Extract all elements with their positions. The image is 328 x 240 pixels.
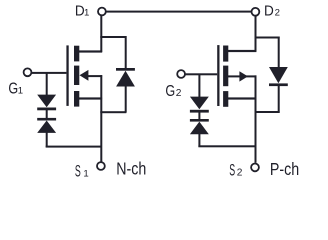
transistor Q2 channel source segment — [223, 91, 228, 107]
wire zener link Q2 — [198, 112, 200, 119]
body diode of Q2 triangle — [269, 67, 288, 83]
transistor Q2 drain lead — [228, 50, 256, 52]
terminal D2 — [252, 8, 260, 16]
svg-text:1: 1 — [18, 86, 23, 97]
wire source vertical Q2 — [255, 75, 257, 162]
transistor Q1 source lead — [79, 97, 102, 99]
zener ZD1a cathode bar — [37, 108, 56, 111]
wire D2 drain vertical Q2 — [255, 15, 257, 52]
transistor Q1 body lead — [88, 75, 102, 77]
svg-text:N-ch: N-ch — [116, 158, 146, 178]
wire drain vertical Q1 — [100, 14, 102, 52]
svg-text:S: S — [229, 162, 235, 180]
transistor Q1 gate line — [66, 45, 68, 106]
transistor Q2 gate line — [217, 45, 219, 106]
transistor Q1 channel body segment — [74, 66, 79, 85]
wire body-diode to source Q2 — [255, 111, 279, 113]
transistor Q1 body arrow (N-ch) — [80, 70, 89, 81]
terminal G2 — [177, 70, 185, 78]
terminal G1 — [24, 68, 32, 76]
wire gate-protection to source S1 — [46, 146, 102, 148]
wire D1-D2 top bus — [106, 11, 252, 13]
wire gate-protection bottom vertical Q2 — [198, 134, 200, 147]
label G1 — [8, 81, 23, 98]
zener ZD1a triangle — [37, 95, 56, 108]
svg-text:G: G — [165, 83, 175, 100]
svg-text:2: 2 — [176, 88, 182, 99]
zener ZD2b triangle — [190, 122, 209, 135]
svg-text:2: 2 — [275, 8, 280, 19]
transistor Q1 drain lead — [79, 50, 102, 52]
wire body-diode anode vertical — [125, 86, 127, 113]
wire body-diode cathode vertical — [125, 36, 127, 69]
wire gate-protection top vertical Q2 — [198, 74, 200, 98]
svg-text:1: 1 — [84, 8, 89, 19]
wire zener link — [46, 110, 48, 118]
svg-text:1: 1 — [83, 168, 88, 179]
wire body-diode cathode vertical Q2 — [278, 86, 280, 113]
label S2 — [229, 162, 243, 180]
wire drain to body-diode Q2 — [255, 37, 280, 39]
wire gate-protection bottom vertical — [46, 133, 48, 148]
wire body-diode to source Q1 — [100, 111, 126, 113]
transistor Q2 channel body segment — [223, 66, 228, 87]
svg-text:P-ch: P-ch — [270, 159, 299, 179]
zener ZD2b cathode bar — [190, 119, 209, 122]
zener ZD1b cathode bar — [37, 118, 56, 121]
zener ZD2a triangle — [190, 97, 209, 110]
svg-text:2: 2 — [237, 168, 243, 179]
svg-text:S: S — [75, 162, 81, 180]
wire G1 to gate — [31, 72, 66, 74]
transistor Q1 channel source segment — [74, 91, 79, 107]
terminal D1 — [98, 8, 106, 16]
transistor Q2 body arrow (P-ch) — [239, 71, 248, 81]
terminal S2 — [251, 164, 259, 172]
wire body-diode anode vertical Q2 — [278, 37, 280, 68]
transistor Q2 body lead — [228, 75, 256, 77]
wire G2 to gate — [185, 73, 218, 75]
label D2 — [264, 3, 280, 20]
body diode of Q2 cathode bar — [269, 83, 288, 86]
transistor Q2 source lead — [228, 97, 256, 99]
body diode of Q1 cathode bar — [116, 68, 135, 71]
terminal S1 — [97, 162, 105, 170]
wire gate-protection top vertical — [46, 72, 48, 95]
wire source vertical Q1 — [100, 75, 102, 162]
wire drain to body-diode D1-side — [100, 36, 126, 38]
svg-text:G: G — [8, 81, 18, 98]
svg-text:D: D — [264, 3, 274, 20]
body diode of Q1 triangle — [116, 71, 135, 87]
label S1 — [75, 162, 89, 180]
label G2 — [165, 83, 181, 100]
transistor Q2 channel drain segment — [223, 46, 228, 62]
wire gate-protection to source S2 — [198, 145, 256, 147]
zener ZD1b triangle — [37, 121, 56, 133]
label D1 — [75, 3, 89, 20]
zener ZD2a cathode bar — [190, 110, 209, 113]
transistor Q1 channel drain segment — [74, 46, 79, 62]
